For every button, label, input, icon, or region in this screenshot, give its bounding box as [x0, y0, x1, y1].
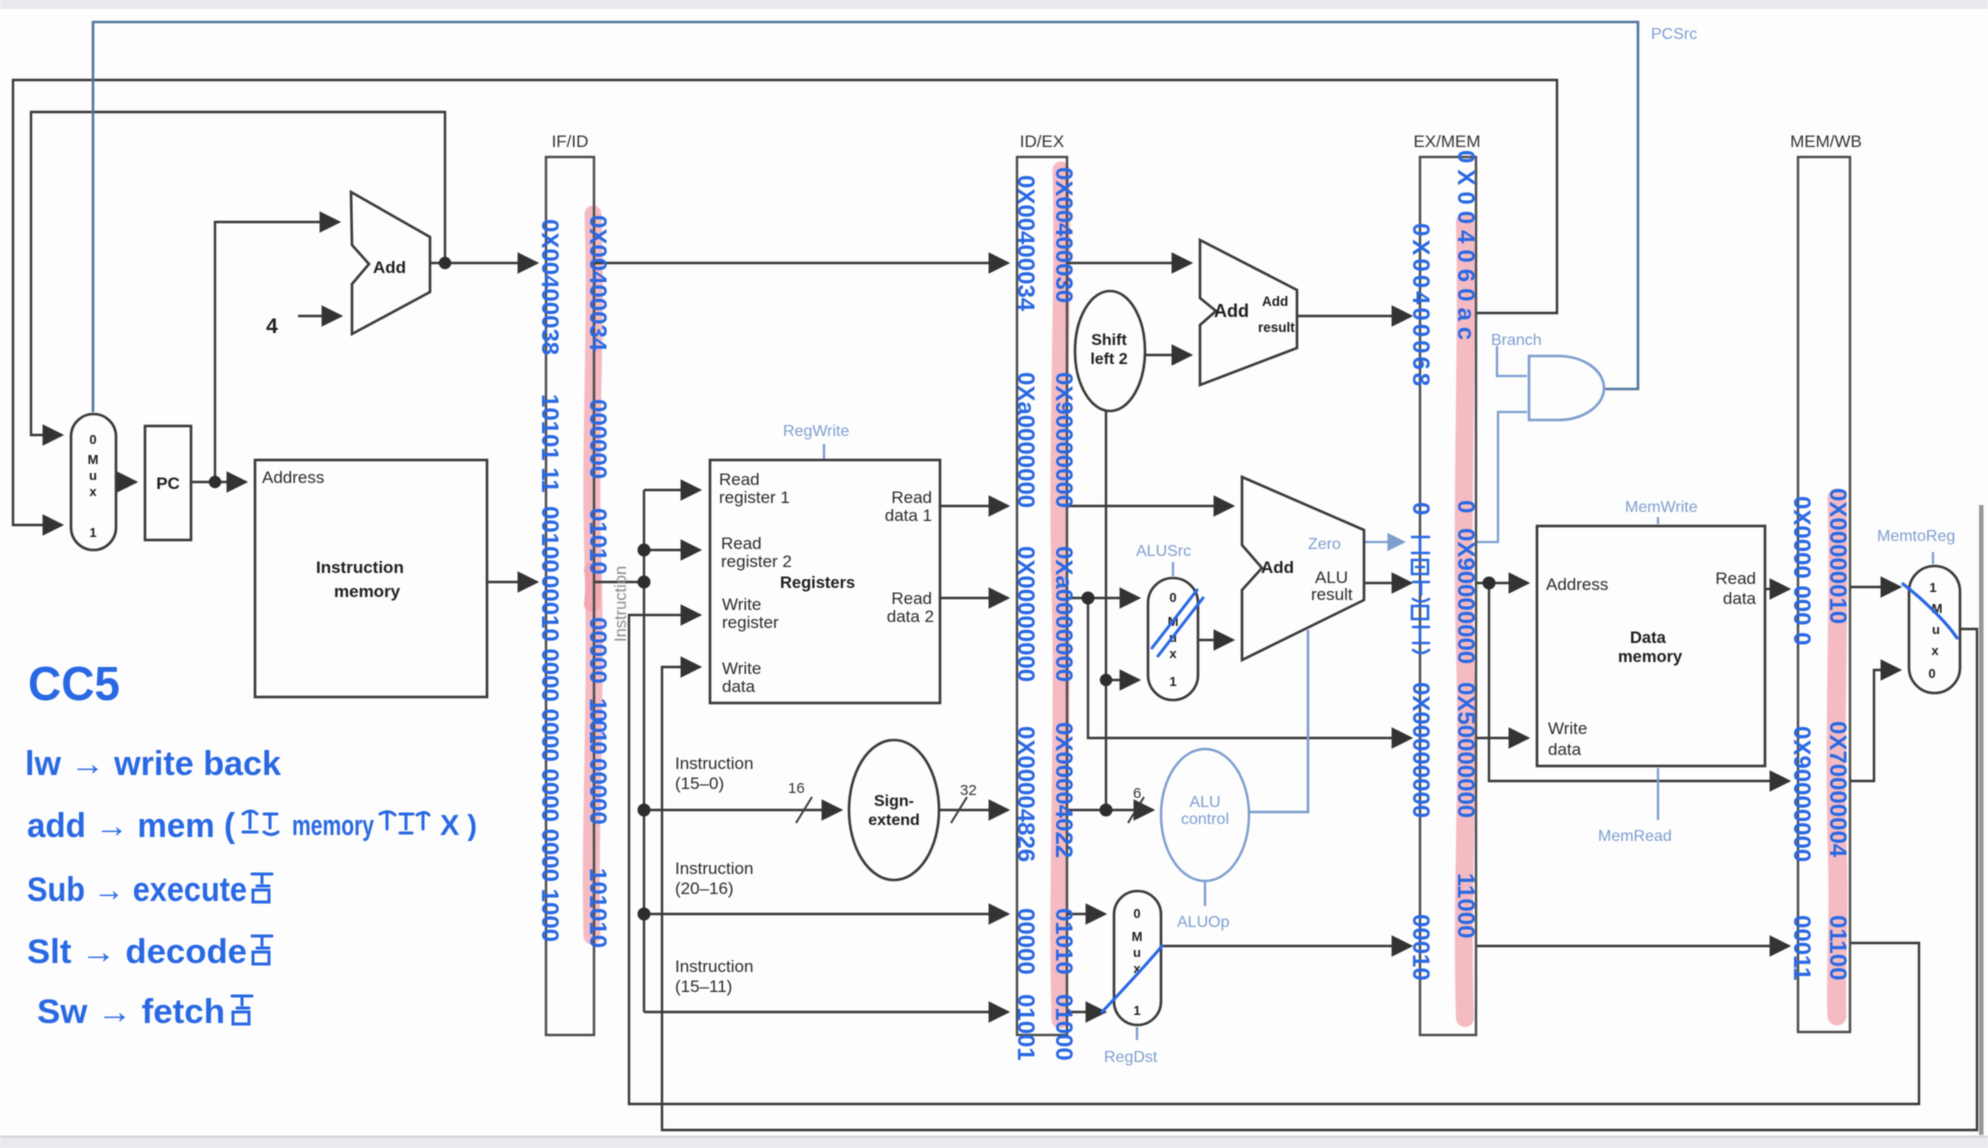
- svg-text:0: 0: [1928, 666, 1935, 681]
- svg-text:16: 16: [788, 780, 805, 797]
- AND gate for branch: [1529, 356, 1604, 420]
- svg-text:00011: 00011: [1788, 915, 1815, 980]
- svg-text:Slt → decode: Slt → decode: [27, 933, 247, 971]
- svg-text:0: 0: [89, 432, 96, 447]
- svg-text:000000: 000000: [584, 399, 611, 479]
- svg-text:Sub → execute: Sub → execute: [27, 871, 247, 909]
- svg-text:u: u: [89, 468, 97, 483]
- wire: MEM/WB read data to MemtoReg mux: [1850, 586, 1900, 588]
- svg-text:u: u: [1932, 622, 1940, 637]
- wire: data memory read data to MEM/WB: [1765, 588, 1789, 590]
- wire: branch adder result to EX/MEM: [1297, 315, 1411, 317]
- wire: EX/MEM ALU result to data memory address and MEM/WB: [1476, 582, 1528, 584]
- svg-text:(15–11): (15–11): [675, 977, 732, 996]
- svg-text:1: 1: [1169, 674, 1176, 689]
- wire: MEM/WB ALU result to MemtoReg mux: [1850, 670, 1900, 781]
- svg-text:00000: 00000: [584, 758, 611, 825]
- mux MemtoReg: [1909, 566, 1960, 693]
- svg-text:Address: Address: [1546, 575, 1608, 594]
- shift left 2 ellipse: [1075, 291, 1145, 411]
- svg-text:10101 11: 10101 11: [536, 394, 563, 493]
- svg-text:memory: memory: [334, 582, 401, 601]
- svg-text:0X00000000: 0X00000000: [1407, 682, 1434, 818]
- branch adder Add result: [1200, 240, 1297, 385]
- sign extend ellipse: [849, 740, 939, 880]
- wire: ID/EX PC+4 to branch adder: [1068, 262, 1191, 264]
- svg-text:ALUOp: ALUOp: [1177, 914, 1230, 931]
- korean doem after decode: [252, 936, 272, 964]
- korean doem after execute: [252, 874, 272, 902]
- wire: immediate to shift-left-2 / ALUSrc mux / ALU control: [1068, 809, 1153, 811]
- wire: PC mux output to PC: [116, 481, 136, 483]
- svg-text:0X00400034: 0X00400034: [1012, 175, 1039, 312]
- wire: shift left 2 to branch adder: [1144, 354, 1191, 356]
- svg-text:0X00000010: 0X00000010: [1824, 488, 1851, 624]
- svg-text:0X00400030: 0X00400030: [1050, 167, 1077, 303]
- right scan border: [1979, 505, 1984, 1135]
- svg-text:Add: Add: [1262, 294, 1288, 309]
- svg-text:00010 0000 0000 0000 0000 1000: 00010 0000 0000 0000 0000 1000: [536, 575, 563, 942]
- svg-text:1: 1: [1929, 580, 1936, 595]
- wire: IF/ID PC+4 to ID/EX: [594, 262, 1008, 264]
- wire: ID/EX read data 2 to ALUSrc mux and EX/MEM write data: [1068, 597, 1139, 599]
- korean scribble in add note: [243, 811, 257, 832]
- wire: Zero from EX/MEM to AND gate, Branch input: [1476, 412, 1527, 542]
- wire: write register number into Registers: [629, 615, 1919, 1104]
- svg-text:Read: Read: [891, 589, 932, 608]
- svg-text:x: x: [1169, 646, 1177, 661]
- svg-text:0X00000000: 0X00000000: [1012, 546, 1039, 682]
- svg-text:01000: 01000: [1050, 994, 1077, 1061]
- wire: ALU control to ALU: [1246, 630, 1308, 812]
- svg-text:register: register: [722, 613, 779, 632]
- svg-text:Sign-: Sign-: [874, 793, 914, 810]
- svg-text:memory: memory: [292, 810, 374, 842]
- instruction memory: [255, 460, 487, 697]
- svg-text:ALU: ALU: [1189, 794, 1220, 811]
- svg-text:u: u: [1133, 945, 1141, 960]
- svg-text:add → mem (: add → mem (: [27, 807, 236, 845]
- svg-text:0: 0: [1169, 590, 1176, 605]
- svg-text:CC5: CC5: [28, 658, 120, 711]
- svg-text:ALUSrc: ALUSrc: [1136, 543, 1191, 560]
- svg-text:data: data: [722, 677, 756, 696]
- wire: instruction memory output to IF/ID: [487, 581, 537, 583]
- wire: PC output to instruction memory + up to Add: [191, 481, 246, 483]
- highlighter strip on IF/ID: [591, 214, 594, 936]
- svg-text:Add: Add: [373, 258, 406, 277]
- svg-text:register 1: register 1: [719, 488, 790, 507]
- svg-text:Zero: Zero: [1308, 536, 1341, 553]
- svg-text:X ): X ): [440, 810, 477, 842]
- registers file: [710, 460, 940, 703]
- svg-text:32: 32: [960, 782, 977, 799]
- mux ALUSrc: [1148, 578, 1198, 700]
- wire: EX/MEM write data to data memory: [1476, 737, 1528, 739]
- highlighter strip on MEM/WB: [1836, 498, 1838, 1016]
- svg-text:M: M: [1132, 929, 1143, 944]
- svg-text:6: 6: [1133, 785, 1141, 802]
- svg-text:Read: Read: [891, 488, 932, 507]
- svg-text:Instruction: Instruction: [675, 957, 753, 976]
- wire: instruction bus from IF/ID: [594, 581, 644, 583]
- svg-text:101010: 101010: [584, 868, 611, 948]
- ALU control ellipse: [1161, 749, 1249, 881]
- svg-text:0X90000000: 0X90000000: [1050, 372, 1077, 508]
- svg-text:1: 1: [1133, 1003, 1140, 1018]
- PC register: [145, 426, 191, 540]
- svg-text:0X004060ac: 0X004060ac: [1452, 150, 1479, 346]
- svg-text:01001: 01001: [1012, 994, 1039, 1061]
- svg-text:data 2: data 2: [887, 607, 934, 626]
- svg-text:Read: Read: [719, 470, 760, 489]
- svg-text:Instruction: Instruction: [316, 558, 404, 577]
- wire: write data into Registers: [662, 629, 1977, 1130]
- svg-text:0: 0: [1452, 500, 1479, 513]
- korean doem after fetch: [232, 996, 252, 1024]
- wire: PCSrc blue feedback wire: [93, 22, 1638, 412]
- handwritten blue slash on RegDst mux: [1102, 946, 1162, 1012]
- svg-text:01100: 01100: [1824, 915, 1851, 980]
- wire: Add output to IF/ID: [430, 262, 537, 264]
- svg-text:0X90000000: 0X90000000: [1452, 528, 1479, 664]
- svg-text:00000: 00000: [1012, 908, 1039, 975]
- svg-text:0X70000004: 0X70000004: [1824, 721, 1851, 858]
- svg-text:PC: PC: [156, 474, 180, 493]
- svg-text:Add: Add: [1214, 301, 1249, 321]
- svg-text:RegDst: RegDst: [1104, 1049, 1158, 1066]
- wire: RegDst mux output to EX/MEM: [1161, 945, 1411, 947]
- wire: ALUSrc mux output to ALU: [1198, 639, 1233, 641]
- wire: EX/MEM register number to MEM/WB: [1476, 945, 1789, 947]
- svg-text:Instruction: Instruction: [612, 566, 630, 642]
- svg-text:0X00400068: 0X00400068: [1407, 223, 1434, 389]
- svg-text:PCSrc: PCSrc: [1651, 26, 1697, 43]
- svg-text:0X00400038: 0X00400038: [536, 219, 563, 355]
- svg-text:MemtoReg: MemtoReg: [1877, 528, 1955, 545]
- svg-text:10010: 10010: [584, 698, 611, 754]
- svg-text:0Xa0000000: 0Xa0000000: [1012, 372, 1039, 508]
- wire: Zero flag ALU to EX/MEM: [1364, 541, 1404, 543]
- highlighter strip on ID/EX: [1059, 170, 1062, 1020]
- svg-text:4: 4: [266, 315, 278, 338]
- ALU: [1242, 477, 1364, 660]
- svg-text:Write: Write: [722, 595, 761, 614]
- svg-text:(15–0): (15–0): [675, 774, 724, 793]
- svg-text:0Xa0000000: 0Xa0000000: [1050, 546, 1077, 682]
- svg-text:control: control: [1181, 811, 1229, 828]
- svg-text:0X00400034: 0X00400034: [584, 215, 611, 352]
- handwritten blue slash on ALUSrc mux: [1152, 590, 1203, 656]
- svg-text:Address: Address: [262, 468, 324, 487]
- svg-text:ID/EX: ID/EX: [1020, 132, 1064, 151]
- svg-text:register 2: register 2: [721, 552, 792, 571]
- svg-text:0X00004022: 0X00004022: [1050, 722, 1077, 858]
- svg-text:0X90000000: 0X90000000: [1788, 726, 1815, 862]
- mux RegDst: [1114, 891, 1161, 1025]
- svg-text:data: data: [1723, 589, 1757, 608]
- svg-text:left 2: left 2: [1090, 351, 1127, 368]
- svg-text:00100: 00100: [536, 506, 563, 573]
- wire: 4 constant into Add: [298, 315, 341, 317]
- svg-text:0: 0: [1407, 502, 1434, 515]
- svg-text:RegWrite: RegWrite: [783, 423, 849, 440]
- svg-text:extend: extend: [868, 812, 920, 829]
- svg-text:lw → write back: lw → write back: [25, 745, 281, 783]
- wire: branch-target feedback EX/MEM to PC mux input 1: [13, 80, 1557, 525]
- bit width slashes: [796, 797, 812, 823]
- MEM/WB pipeline register: [1798, 157, 1850, 1032]
- svg-text:(20–16): (20–16): [675, 879, 734, 898]
- adder Add (PC+4): [351, 192, 430, 334]
- svg-text:MemRead: MemRead: [1598, 828, 1672, 845]
- svg-text:Sw → fetch: Sw → fetch: [37, 993, 225, 1031]
- svg-text:x: x: [1931, 643, 1939, 658]
- wire: sign-extend output to ID/EX: [938, 809, 1008, 811]
- svg-text:Instruction: Instruction: [675, 754, 753, 773]
- wire: ID/EX instruction 15-11 to RegDst mux input 1: [1068, 1011, 1105, 1013]
- svg-text:11000: 11000: [1452, 873, 1479, 938]
- svg-text:EX/MEM: EX/MEM: [1413, 132, 1480, 151]
- svg-text:MemWrite: MemWrite: [1625, 499, 1698, 516]
- svg-text:0X00004826: 0X00004826: [1012, 726, 1039, 862]
- wire: ALU result to EX/MEM: [1364, 582, 1411, 584]
- wire: PC+4 feedback Add output to PC mux input 0: [31, 112, 445, 435]
- control label ticks: [823, 444, 825, 459]
- ID/EX pipeline register: [1017, 157, 1067, 1035]
- svg-text:Instruction: Instruction: [675, 859, 753, 878]
- bottom scanner strip: [0, 1136, 1988, 1148]
- svg-text:00010: 00010: [1407, 914, 1434, 981]
- data memory: [1537, 526, 1765, 766]
- svg-text:01010: 01010: [1050, 908, 1077, 975]
- mux PC source (0/1): [71, 414, 116, 550]
- svg-text:data 1: data 1: [885, 506, 932, 525]
- svg-text:Data: Data: [1630, 629, 1667, 647]
- svg-text:M: M: [88, 452, 99, 467]
- svg-text:1: 1: [89, 525, 96, 540]
- IF/ID pipeline register: [546, 157, 594, 1035]
- svg-text:0X50000000: 0X50000000: [1452, 682, 1479, 818]
- svg-text:x: x: [89, 484, 97, 499]
- svg-text:0X0000 000 0: 0X0000 000 0: [1788, 496, 1815, 645]
- svg-text:00000: 00000: [584, 617, 611, 684]
- svg-text:IF/ID: IF/ID: [552, 132, 589, 151]
- wire: read data 1 to ID/EX: [940, 505, 1008, 507]
- svg-text:result: result: [1258, 320, 1295, 335]
- svg-text:Read: Read: [721, 534, 762, 553]
- wire: ID/EX read data 1 to ALU: [1068, 505, 1233, 507]
- top scanner strip: [0, 0, 1988, 9]
- svg-text:Shift: Shift: [1091, 332, 1127, 349]
- handwritten scribble (korean) EX/MEM left: [1412, 537, 1429, 653]
- svg-text:Add: Add: [1261, 558, 1294, 577]
- svg-text:result: result: [1311, 585, 1353, 604]
- svg-text:01010: 01010: [584, 508, 611, 575]
- svg-text:memory: memory: [1618, 648, 1683, 666]
- handwritten blue slash on MemtoReg mux: [1903, 584, 1957, 638]
- wire: ID/EX instruction 20-16 to RegDst mux input 0: [1068, 913, 1105, 915]
- svg-text:Write: Write: [1548, 719, 1587, 738]
- junction dots: [209, 476, 221, 488]
- svg-text:Read: Read: [1715, 569, 1756, 588]
- svg-text:Branch: Branch: [1491, 332, 1542, 349]
- svg-text:data: data: [1548, 740, 1582, 759]
- svg-text:MEM/WB: MEM/WB: [1790, 132, 1862, 151]
- EX/MEM pipeline register: [1420, 157, 1476, 1035]
- svg-text:Write: Write: [722, 659, 761, 678]
- svg-text:0: 0: [1133, 906, 1140, 921]
- svg-text:Registers: Registers: [780, 574, 855, 592]
- wire: read data 2 to ID/EX: [940, 597, 1008, 599]
- highlighter strip on EX/MEM: [1464, 222, 1466, 1018]
